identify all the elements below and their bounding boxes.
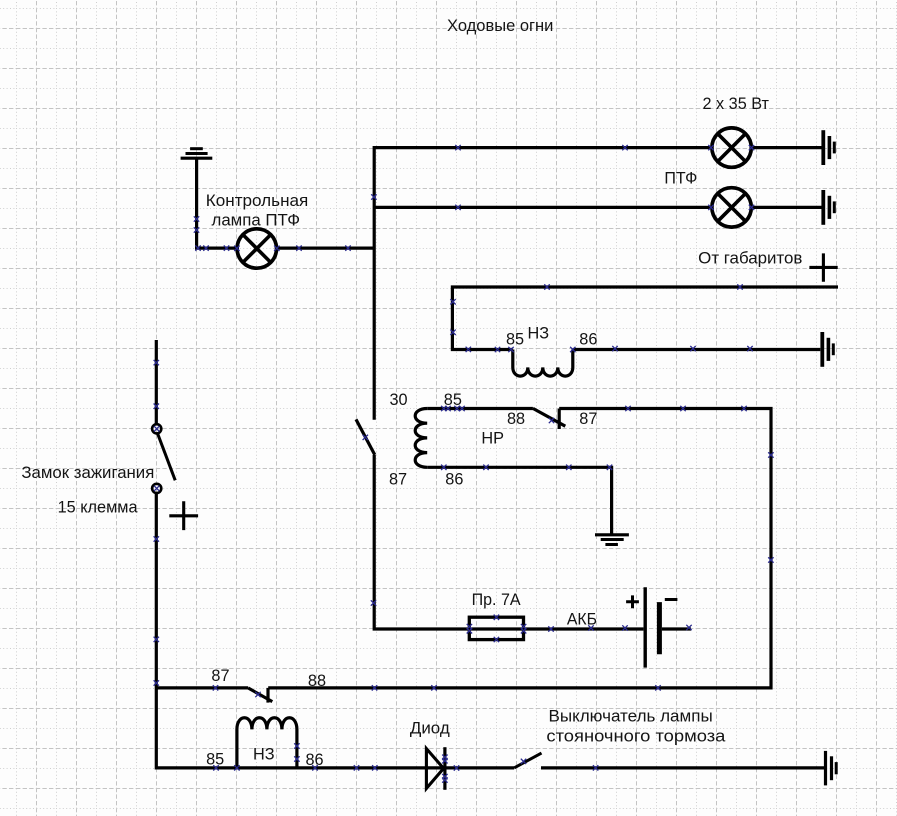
wire 2 from bus to lamp HL2 [374, 206, 712, 209]
wire ignition lower lead down to bottom wire and right to diode [156, 493, 514, 768]
svg-text:86: 86 [306, 751, 324, 769]
svg-text:НЗ: НЗ [253, 746, 275, 764]
svg-text:88: 88 [507, 410, 525, 428]
wire contact 87 right, down right side to bottom bus [268, 409, 771, 688]
svg-text:ПТФ: ПТФ [664, 170, 697, 188]
brake lamp switch lever [514, 753, 541, 768]
switch lever on bus (open contact) [356, 419, 375, 455]
fuse Пр.7А rectangle [469, 617, 523, 639]
ignition switch lever [158, 433, 176, 480]
svg-text:2 x 35 Вт: 2 x 35 Вт [703, 95, 770, 113]
ignition switch contact circle lower [152, 484, 161, 493]
svg-text:АКБ: АКБ [567, 611, 597, 629]
svg-text:Выключатель лампы: Выключатель лампы [549, 707, 713, 725]
svg-text:88: 88 [308, 672, 326, 690]
wire from ground G1 down and right to control lamp [197, 160, 238, 249]
wire battery minus stub [662, 627, 691, 630]
lever of bottom contact 87-88 [248, 688, 272, 702]
stub at bottom contact 88 [266, 688, 269, 703]
svg-text:85: 85 [506, 331, 524, 349]
ground G6 (bottom right, vertical bars) [826, 751, 837, 786]
wire bottom bus left part to ignition line [156, 686, 248, 689]
wire coil K2 to ground G5 [573, 348, 821, 351]
svg-text:Ходовые огни: Ходовые огни [447, 17, 553, 35]
ground G5 (right side, vertical bars) [822, 332, 833, 367]
svg-text:Контрольная: Контрольная [206, 192, 309, 210]
svg-text:лампа ПТФ: лампа ПТФ [212, 212, 301, 230]
svg-text:85: 85 [444, 391, 462, 409]
wire lamp HL3 to bus node [276, 247, 374, 250]
ground G4 (below relay, bars stacked downward) [595, 535, 629, 545]
battery GB1 positive plate [644, 587, 647, 667]
svg-text:НР: НР [481, 430, 504, 448]
wire ignition switch upper lead [155, 340, 158, 424]
relay contact lever 88 [533, 408, 565, 426]
diode VD1 cathode bar [443, 747, 446, 790]
relay K1 HP coil (bumps left) [415, 409, 427, 468]
svg-text:85: 85 [206, 751, 224, 769]
svg-text:От габаритов: От габаритов [698, 249, 802, 267]
terminal cross: 15 клемма tap [169, 501, 198, 530]
battery GB1 negative plate [657, 602, 662, 654]
lamp HL1 2x35W upper [712, 128, 751, 167]
wire: main bus from lamp wire 1 corner down to switch break [374, 148, 712, 420]
lamp HL2 ПТФ lower [712, 188, 751, 227]
wire: bus lower part down to fuse wire [374, 455, 643, 629]
svg-text:87: 87 [389, 471, 407, 489]
battery plus sign [626, 595, 639, 608]
wire from От габаритов tap, left and down [452, 287, 838, 350]
ground G2 (right side, vertical bars) [823, 130, 834, 165]
ignition switch contact circle upper [152, 424, 161, 433]
ground G3 (right side, vertical bars) [823, 190, 834, 225]
svg-text:87: 87 [579, 410, 597, 428]
wire relay 85 contact row (30-85 to contact break) [427, 407, 533, 410]
diode VD1 triangle [426, 749, 443, 789]
svg-text:86: 86 [579, 331, 597, 349]
relay contact stub 87 [558, 409, 561, 430]
svg-text:30: 30 [390, 391, 408, 409]
wire lamp HL2 to ground G3 [752, 206, 822, 209]
svg-text:87: 87 [211, 667, 229, 685]
svg-text:Замок зажигания: Замок зажигания [21, 464, 154, 482]
ground symbol G1 (top left, bars stacked upward) [181, 149, 213, 159]
svg-text:стояночного тормоза: стояночного тормоза [546, 727, 726, 745]
relay coil K2 НЗ (bumps down) [513, 350, 573, 377]
terminal cross: От габаритов tap [809, 253, 837, 281]
wire relay coil 86 to ground G4 [427, 467, 611, 533]
svg-text:Диод: Диод [410, 720, 450, 738]
svg-text:15 клемма: 15 клемма [58, 498, 139, 516]
wire lamp HL1 to ground G2 [752, 146, 822, 149]
svg-text:НЗ: НЗ [528, 325, 550, 343]
connection point markers (blue x) [154, 145, 774, 783]
relay coil K3 НЗ (bottom, bumps up) [237, 718, 297, 768]
svg-text:Пр. 7А: Пр. 7А [472, 591, 521, 609]
wire brake switch to ground G6 [541, 766, 824, 769]
svg-text:86: 86 [445, 471, 463, 489]
lamp HL3 Контрольная лампа ПТФ (circle with X) [237, 229, 276, 268]
battery minus sign [665, 598, 678, 601]
